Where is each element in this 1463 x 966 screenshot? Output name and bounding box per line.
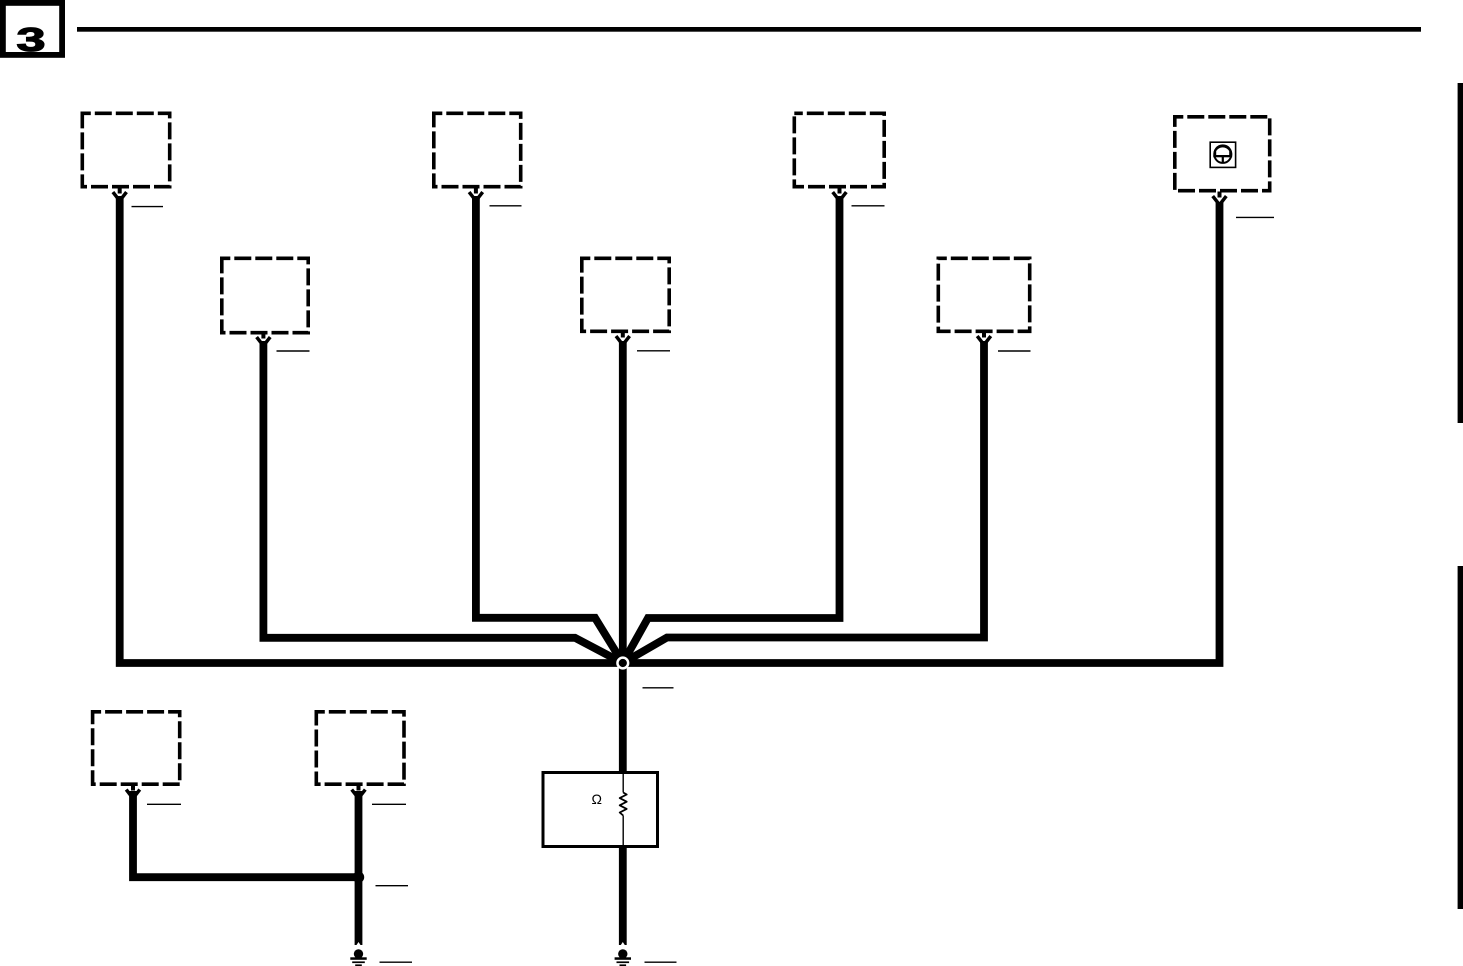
node B junction dot [353,872,364,883]
steering wheel icon [1213,144,1232,163]
wire from connector C6 to junction [623,341,984,663]
wire from connector C9 down to ground G1 [355,791,363,945]
wire from connector C3 to junction [476,196,623,663]
connector C7 pin arrow [1213,192,1227,205]
right margin bar 1 [1458,83,1463,423]
connector C1 wire label line [132,206,164,208]
resistor R1 zigzag element [620,793,627,816]
wire junction to resistor module [619,663,627,772]
connector C5 (dashed box) [794,113,884,186]
connector C2 wire label line [277,350,310,352]
ground G1 label line [380,961,413,963]
wire resistor module to ground G2 [619,846,627,945]
connector C2 pin arrow [257,333,271,346]
wire from connector C4 straight down to junction [619,341,627,663]
connector C9 pin arrow [352,785,366,799]
connector C4 (dashed box) [582,258,669,331]
connector C7 wire label line [1236,216,1274,218]
connector C1 (dashed box) [82,113,169,186]
svg-text:3: 3 [17,22,46,58]
right margin bar 2 [1458,566,1463,909]
resistor R1 internal lead [622,772,624,848]
ground G1 symbol [350,942,366,966]
node A junction ring [616,656,629,669]
connector C7 (dashed box with steering icon) [1175,117,1270,191]
wire from connector C2 to junction [263,341,622,663]
top horizontal rule [77,27,1421,32]
node A label line [643,687,674,689]
resistor module R1 box [543,773,658,847]
connector C5 pin arrow [833,188,847,201]
connector C8 wire label line [147,803,181,805]
ground G2 label line [645,961,677,963]
connector C3 wire label line [490,205,522,207]
connector C8 pin arrow [126,785,140,799]
connector C4 pin arrow [616,332,630,345]
connector C6 pin arrow [977,332,991,345]
connector C6 (dashed box) [938,258,1029,331]
svg-text:Ω: Ω [591,791,601,807]
connector C8 (dashed box) [93,712,180,784]
connector C6 wire label line [998,350,1031,352]
page number badge frame [3,3,62,55]
connector C1 pin arrow [113,188,127,201]
connector C9 (dashed box) [316,712,404,784]
wire from connector C5 to junction [623,196,840,663]
page number digit 3 [17,22,46,58]
connector C4 wire label line [637,350,670,352]
wire from connector C8 to node B [133,791,359,877]
node B label line [376,885,409,887]
connector C3 (dashed box) [434,113,521,186]
connector C5 wire label line [852,205,885,207]
connector C3 pin arrow [469,188,483,201]
ground G2 symbol [615,942,631,966]
connector C9 wire label line [372,803,406,805]
wire from connector C1 to junction (left long run) and up to connector C7 [120,196,1220,663]
connector C2 (dashed box) [222,258,308,332]
steering wheel icon frame [1210,142,1235,167]
